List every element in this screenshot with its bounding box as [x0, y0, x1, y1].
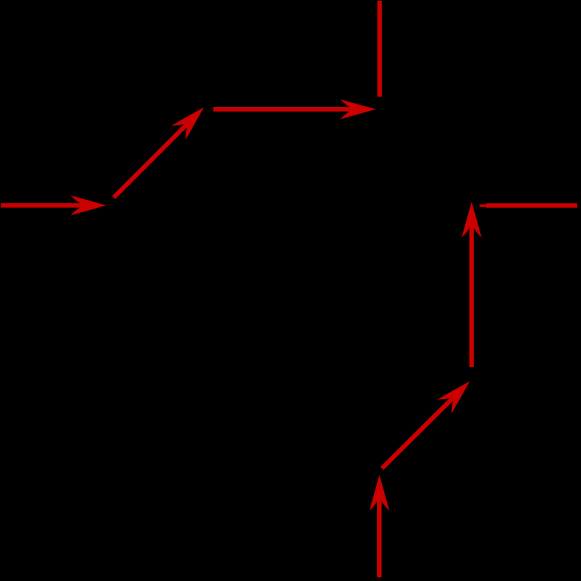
wire: right horizontal segment exiting right edge: [480, 204, 578, 207]
arrow: lower-right diagonal arrow pointing up-right: [382, 374, 477, 468]
arrow: bottom vertical arrow entering from bottom edge pointing up: [369, 475, 389, 578]
wire: top vertical segment exiting top edge: [377, 1, 382, 97]
arrow: top horizontal arrow pointing right: [213, 99, 376, 119]
arrow: left horizontal arrow entering from left edge: [1, 195, 106, 215]
arrow: upper-left diagonal arrow pointing up-right: [114, 100, 211, 197]
arrow: right vertical arrow pointing up: [462, 202, 482, 367]
